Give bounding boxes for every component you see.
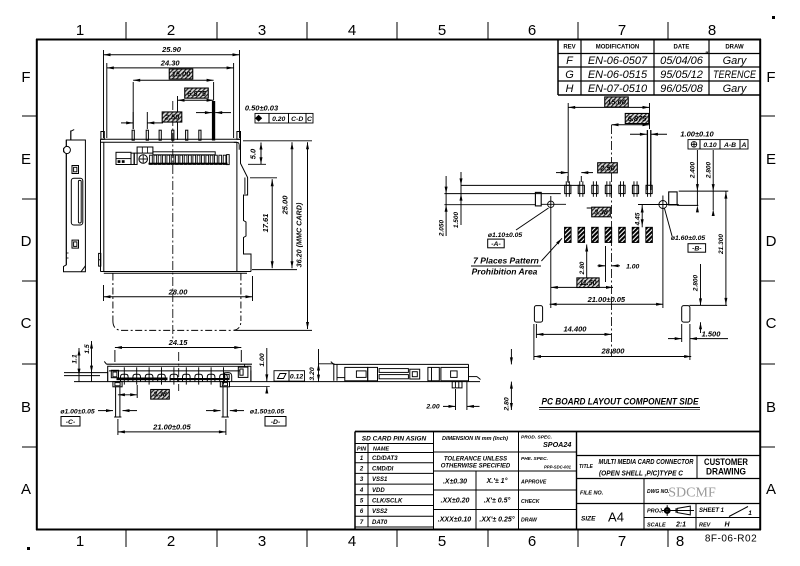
svg-text:2.80: 2.80 (504, 397, 511, 411)
svg-text:F: F (766, 69, 775, 86)
svg-text:DWG NO.: DWG NO. (647, 489, 670, 495)
svg-text:0.50±0.03: 0.50±0.03 (245, 104, 279, 113)
svg-text:4.45: 4.45 (634, 212, 641, 226)
svg-text:B: B (21, 399, 31, 416)
svg-text:X.'± 1°: X.'± 1° (486, 477, 508, 485)
svg-text:2.400: 2.400 (690, 161, 697, 179)
svg-text:7: 7 (618, 533, 626, 550)
svg-text:24.15: 24.15 (168, 338, 189, 347)
svg-text:CD/DAT3: CD/DAT3 (372, 456, 398, 462)
svg-text:.XX±0.20: .XX±0.20 (441, 498, 470, 505)
svg-text:CLK/SCLK: CLK/SCLK (372, 498, 403, 504)
svg-text:H: H (566, 83, 574, 95)
svg-text:2.050: 2.050 (438, 219, 445, 237)
svg-text:95/05/12: 95/05/12 (660, 69, 703, 81)
svg-text:APPROVE: APPROVE (520, 480, 547, 486)
svg-text:14.400: 14.400 (564, 324, 588, 333)
svg-text:15.00: 15.00 (172, 70, 192, 79)
svg-text:REV: REV (699, 523, 712, 529)
svg-text:25.00: 25.00 (281, 195, 290, 216)
svg-text:D: D (21, 233, 32, 250)
svg-text:21.300: 21.300 (718, 234, 725, 255)
svg-text:05/04/06: 05/04/06 (660, 55, 704, 67)
svg-text:2.50: 2.50 (164, 113, 180, 122)
svg-text:25.90: 25.90 (161, 45, 182, 54)
svg-text:EN-06-0515: EN-06-0515 (588, 69, 648, 81)
svg-text:2.800: 2.800 (705, 161, 712, 179)
svg-text:DRAW: DRAW (725, 45, 744, 51)
svg-text:1.1: 1.1 (72, 354, 79, 364)
svg-text:-D-: -D- (271, 419, 281, 426)
svg-text:SHEET 1: SHEET 1 (699, 508, 725, 514)
svg-text:Prohibition Area: Prohibition Area (472, 267, 538, 277)
svg-text:Gary: Gary (723, 83, 748, 95)
svg-text:4: 4 (348, 22, 356, 39)
svg-text:ø1.60±0.05: ø1.60±0.05 (671, 235, 706, 242)
svg-text:CUSTOMER: CUSTOMER (704, 457, 748, 467)
svg-text:2:1: 2:1 (675, 522, 686, 529)
svg-text:PROJ.: PROJ. (647, 509, 664, 515)
svg-text:.X'± 0.5°: .X'± 0.5° (484, 497, 511, 505)
svg-text:(OPEN SHELL ,P/C)TYPE C: (OPEN SHELL ,P/C)TYPE C (599, 471, 684, 478)
svg-text:21.00±0.05: 21.00±0.05 (152, 422, 191, 431)
svg-text:7: 7 (618, 22, 626, 39)
svg-text:SPOA24: SPOA24 (543, 440, 571, 449)
svg-text:21.00±0.05: 21.00±0.05 (587, 295, 626, 304)
svg-text:0.20: 0.20 (272, 116, 285, 123)
svg-text:6.875: 6.875 (187, 89, 207, 98)
svg-text:FILE NO.: FILE NO. (580, 491, 604, 497)
svg-text:C: C (766, 315, 777, 332)
svg-text:VSS2: VSS2 (372, 509, 388, 515)
svg-text:2.00: 2.00 (425, 403, 439, 410)
svg-text:G: G (565, 69, 574, 81)
svg-text:DRAWING: DRAWING (706, 467, 746, 477)
svg-text:VSS1: VSS1 (372, 477, 388, 483)
svg-text:DIMENSION IN mm (Inch): DIMENSION IN mm (Inch) (442, 436, 508, 442)
svg-text:E: E (766, 151, 776, 168)
svg-text:2.800: 2.800 (693, 274, 700, 292)
svg-text:C: C (21, 315, 32, 332)
svg-text:17.61: 17.61 (261, 214, 270, 233)
svg-text:3: 3 (258, 533, 266, 550)
svg-text:6: 6 (528, 533, 536, 550)
svg-text:15.00: 15.00 (607, 98, 627, 107)
svg-text:VDD: VDD (372, 488, 385, 494)
svg-text:EN-07-0510: EN-07-0510 (588, 83, 648, 95)
svg-text:SD CARD PIN ASIGN: SD CARD PIN ASIGN (362, 436, 427, 443)
svg-text:C: C (307, 116, 312, 123)
svg-text:4: 4 (348, 533, 356, 550)
svg-text:1.500: 1.500 (702, 329, 722, 338)
svg-text:A4: A4 (608, 510, 624, 525)
svg-text:36.20 (MMC CARD): 36.20 (MMC CARD) (295, 202, 304, 267)
svg-text:1.00: 1.00 (259, 353, 266, 366)
svg-text:ø1.10±0.05: ø1.10±0.05 (488, 232, 523, 239)
svg-text:8: 8 (708, 22, 716, 39)
svg-text:1.00±0.10: 1.00±0.10 (680, 129, 714, 138)
svg-text:D: D (766, 233, 777, 250)
svg-text:.X±0.30: .X±0.30 (443, 479, 467, 486)
svg-text:4: 4 (359, 488, 364, 494)
svg-text:TITLE: TITLE (579, 464, 594, 470)
svg-text:TERENCE: TERENCE (713, 69, 757, 81)
svg-text:F: F (21, 69, 30, 86)
svg-text:PC BOARD LAYOUT COMPONENT SIDE: PC BOARD LAYOUT COMPONENT SIDE (542, 397, 700, 407)
svg-text:28.00: 28.00 (168, 287, 189, 296)
svg-text:Gary: Gary (723, 55, 748, 67)
svg-text:28.800: 28.800 (601, 347, 626, 356)
svg-text:3: 3 (258, 22, 266, 39)
svg-text:1: 1 (76, 533, 84, 550)
svg-text:96/05/08: 96/05/08 (660, 83, 704, 95)
svg-text:3.38: 3.38 (153, 392, 167, 399)
svg-text:11.50: 11.50 (580, 280, 597, 287)
svg-text:-B-: -B- (692, 245, 702, 252)
svg-text:E: E (21, 151, 31, 168)
svg-text:.XXX±0.10: .XXX±0.10 (438, 517, 472, 524)
svg-text:CMD/DI: CMD/DI (372, 466, 394, 472)
svg-text:PPP-SDC-001: PPP-SDC-001 (544, 465, 572, 470)
svg-text:OTHERWISE SPECIFIED: OTHERWISE SPECIFIED (441, 464, 511, 470)
svg-text:MULTI MEDIA CARD CONNECTOR: MULTI MEDIA CARD CONNECTOR (599, 459, 694, 466)
svg-text:SCALE: SCALE (647, 523, 666, 529)
svg-text:A: A (21, 481, 31, 498)
svg-text:0.10: 0.10 (703, 142, 716, 149)
svg-text:7 Places Pattern: 7 Places Pattern (473, 256, 539, 266)
svg-text:CHECK: CHECK (521, 499, 541, 505)
svg-text:1.00: 1.00 (626, 263, 639, 270)
svg-text:DAT0: DAT0 (372, 520, 388, 526)
svg-text:6: 6 (528, 22, 536, 39)
svg-text:-A-: -A- (491, 241, 501, 248)
svg-text:5.0: 5.0 (249, 148, 258, 159)
svg-text:1: 1 (76, 22, 84, 39)
svg-text:TOLERANCE UNLESS: TOLERANCE UNLESS (444, 457, 507, 463)
svg-text:8: 8 (676, 533, 684, 550)
svg-text:SDCMF: SDCMF (668, 486, 716, 501)
svg-text:.XX'± 0.25°: .XX'± 0.25° (479, 516, 514, 524)
svg-text:DATE: DATE (674, 45, 690, 51)
svg-text:DRAW: DRAW (521, 518, 538, 524)
svg-text:0.12: 0.12 (290, 374, 303, 381)
svg-text:EN-06-0507: EN-06-0507 (588, 55, 648, 67)
svg-text:-C-: -C- (66, 419, 76, 426)
svg-text:A: A (766, 481, 776, 498)
svg-text:MODIFICATION: MODIFICATION (596, 45, 640, 51)
svg-text:5: 5 (438, 533, 446, 550)
svg-text:2: 2 (167, 533, 175, 550)
svg-text:SIZE: SIZE (581, 516, 596, 523)
svg-text:C-D: C-D (291, 116, 303, 123)
svg-text:1.500: 1.500 (453, 211, 460, 228)
svg-text:1.5: 1.5 (84, 344, 91, 354)
svg-text:2: 2 (167, 22, 175, 39)
svg-text:REV: REV (563, 45, 575, 51)
svg-text:3.20: 3.20 (309, 367, 316, 380)
svg-text:3.38: 3.38 (594, 209, 608, 216)
svg-text:2.80: 2.80 (579, 261, 586, 275)
svg-text:PHE. SPEC.: PHE. SPEC. (521, 456, 548, 462)
svg-text:B: B (766, 399, 776, 416)
svg-text:6.875: 6.875 (628, 114, 648, 123)
svg-text:8F-06-R02: 8F-06-R02 (705, 534, 757, 545)
svg-text:2: 2 (359, 466, 364, 472)
svg-text:24.30: 24.30 (160, 58, 181, 67)
svg-text:NAME: NAME (373, 447, 390, 453)
svg-text:A-B: A-B (723, 142, 736, 149)
svg-text:2.50: 2.50 (599, 163, 615, 172)
svg-text:5: 5 (438, 22, 446, 39)
svg-text:ø1.50±0.05: ø1.50±0.05 (250, 409, 285, 416)
svg-text:ø1.00±0.05: ø1.00±0.05 (60, 409, 95, 416)
svg-text:A: A (741, 142, 747, 149)
svg-text:1: 1 (748, 510, 752, 517)
svg-text:PIN: PIN (357, 447, 367, 453)
